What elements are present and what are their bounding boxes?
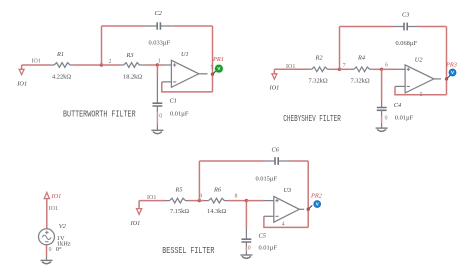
wire node 9 to R6 [199, 200, 204, 202]
junction output node U3 [307, 208, 310, 211]
svg-text:PR3: PR3 [445, 62, 457, 69]
svg-text:R5: R5 [175, 187, 183, 194]
wire R2 to node 7 [331, 68, 340, 70]
junction node 2 [100, 63, 103, 66]
svg-text:0°: 0° [56, 246, 62, 253]
svg-text:V2: V2 [59, 223, 67, 230]
wire feedback loop U1 [162, 82, 213, 92]
wire C6 left segment [199, 160, 264, 162]
svg-text:0.01µF: 0.01µF [395, 115, 414, 122]
wire node 2 to R3 [102, 64, 120, 66]
wire input to R5 [139, 200, 165, 202]
capacitor C4 [381, 69, 383, 101]
svg-text:V: V [217, 66, 220, 71]
svg-text:R6: R6 [213, 187, 222, 194]
wire C6 right segment [289, 160, 308, 162]
svg-text:R4: R4 [357, 55, 365, 62]
svg-text:C6: C6 [272, 147, 280, 154]
wire C2 right segment [173, 25, 213, 27]
wire R6 to node 8 [228, 200, 247, 202]
wire input to R1 [22, 64, 50, 66]
svg-text:BESSEL FILTER: BESSEL FILTER [162, 246, 214, 256]
wire C3 right segment [419, 26, 447, 28]
wire node 6 to U2 [382, 68, 396, 70]
svg-text:PR1: PR1 [212, 56, 224, 63]
wire feedback loop U2 [395, 86, 447, 94]
wire source to ground [46, 245, 48, 257]
junction node 8 [245, 199, 248, 202]
connector IO1 (Butterworth input) [21, 65, 23, 69]
capacitor C6 [265, 160, 290, 162]
svg-text:4: 4 [282, 222, 285, 228]
svg-text:0.01µF: 0.01µF [170, 111, 189, 118]
wire C3 left segment [340, 26, 394, 28]
ground (Chebyshev) [376, 127, 388, 129]
svg-text:7: 7 [343, 63, 346, 69]
junction node 9 [198, 199, 201, 202]
wire node 1 to U1 [157, 64, 163, 66]
svg-text:7.32kΩ: 7.32kΩ [351, 78, 370, 85]
svg-text:4.22kΩ: 4.22kΩ [52, 74, 71, 81]
wire node 8 to U3 [246, 200, 264, 202]
svg-text:18.2kΩ: 18.2kΩ [123, 74, 142, 81]
connector IO1 (output arrow) [44, 192, 49, 198]
AC voltage source V2 [39, 229, 55, 245]
svg-text:IO1: IO1 [130, 220, 141, 227]
svg-text:IO1: IO1 [269, 85, 280, 92]
svg-text:5: 5 [420, 92, 423, 98]
svg-text:U1: U1 [181, 51, 189, 58]
svg-text:0: 0 [159, 114, 162, 120]
resistor R2 [308, 68, 331, 70]
junction node 7 [338, 68, 341, 71]
svg-text:0.01µF: 0.01µF [259, 245, 278, 252]
capacitor C5 [245, 201, 247, 228]
svg-text:0: 0 [248, 246, 251, 252]
connector IO1 (Bessel input) [138, 201, 140, 209]
capacitor C3 [393, 26, 419, 28]
svg-text:R2: R2 [315, 55, 324, 62]
svg-text:CHEBYSHEV FILTER: CHEBYSHEV FILTER [283, 115, 341, 124]
wire input to R2 [274, 68, 307, 70]
svg-text:R1: R1 [56, 51, 64, 58]
wire R4 to node 6 [373, 68, 382, 70]
ground (Butterworth) [151, 129, 163, 131]
svg-text:7.32kΩ: 7.32kΩ [309, 78, 328, 85]
wire feedback loop U3 [264, 216, 308, 227]
probe PR3 [447, 75, 450, 78]
svg-text:R3: R3 [126, 52, 134, 59]
svg-text:PR2: PR2 [310, 193, 323, 200]
svg-text:C4: C4 [394, 102, 401, 109]
svg-text:C5: C5 [259, 233, 266, 240]
ground (source) [41, 259, 53, 261]
junction output node U2 [445, 77, 448, 80]
probe PR2 [309, 205, 312, 208]
ground (Bessel) [240, 254, 252, 256]
resistor R4 [350, 68, 373, 70]
wire node 7 up to C3 [339, 27, 341, 70]
junction output node U1 [211, 73, 214, 76]
svg-text:0.015µF: 0.015µF [256, 176, 278, 183]
svg-text:BUTTERWORTH FILTER: BUTTERWORTH FILTER [63, 109, 136, 119]
svg-text:7.15kΩ: 7.15kΩ [170, 208, 189, 215]
junction node 6 [380, 68, 383, 71]
op-amp U1 [171, 60, 198, 87]
junction node 1 [156, 63, 159, 66]
wire arrow to source [46, 199, 48, 229]
wire node 2 up to C2 [101, 26, 103, 65]
svg-text:IO1: IO1 [49, 206, 58, 212]
resistor R1 [50, 64, 73, 66]
svg-text:IO1: IO1 [32, 59, 41, 65]
wire R5 to node 9 [189, 200, 200, 202]
op-amp U3 [274, 196, 300, 222]
svg-text:V: V [451, 70, 454, 75]
svg-text:0: 0 [385, 116, 388, 122]
wire R1 to node 2 [73, 64, 102, 66]
svg-text:IO1: IO1 [16, 80, 27, 87]
wire node 7 to R4 [340, 68, 350, 70]
wire C2 left segment [102, 25, 147, 27]
svg-text:0.033µF: 0.033µF [149, 40, 171, 47]
svg-text:0.068µF: 0.068µF [396, 40, 418, 47]
svg-text:14.3kΩ: 14.3kΩ [207, 208, 226, 215]
wire R3 to node 1 [146, 64, 157, 66]
capacitor C2 [146, 25, 173, 27]
wire output vertical U2 [446, 27, 448, 95]
svg-text:U2: U2 [415, 57, 424, 64]
probe PR1 [213, 70, 216, 73]
svg-text:1: 1 [158, 58, 161, 64]
svg-text:IO1: IO1 [51, 193, 62, 200]
wire node 9 up to C6 [198, 161, 200, 201]
svg-text:C3: C3 [402, 12, 409, 19]
svg-text:C2: C2 [155, 10, 163, 17]
svg-text:5: 5 [211, 65, 214, 71]
svg-text:V: V [316, 202, 319, 207]
svg-text:0: 0 [49, 247, 52, 253]
resistor R3 [120, 64, 147, 66]
svg-text:8: 8 [235, 193, 238, 199]
svg-text:6: 6 [385, 63, 388, 69]
connector IO1 (Chebyshev input) [273, 69, 275, 74]
capacitor C1 [156, 65, 158, 77]
svg-text:C1: C1 [170, 97, 177, 104]
wire output vertical [212, 26, 214, 92]
wire output vertical U3 [307, 161, 309, 227]
op-amp U2 [405, 65, 434, 93]
resistor R5 [166, 200, 189, 202]
svg-text:U3: U3 [284, 187, 292, 194]
resistor R6 [205, 200, 228, 202]
